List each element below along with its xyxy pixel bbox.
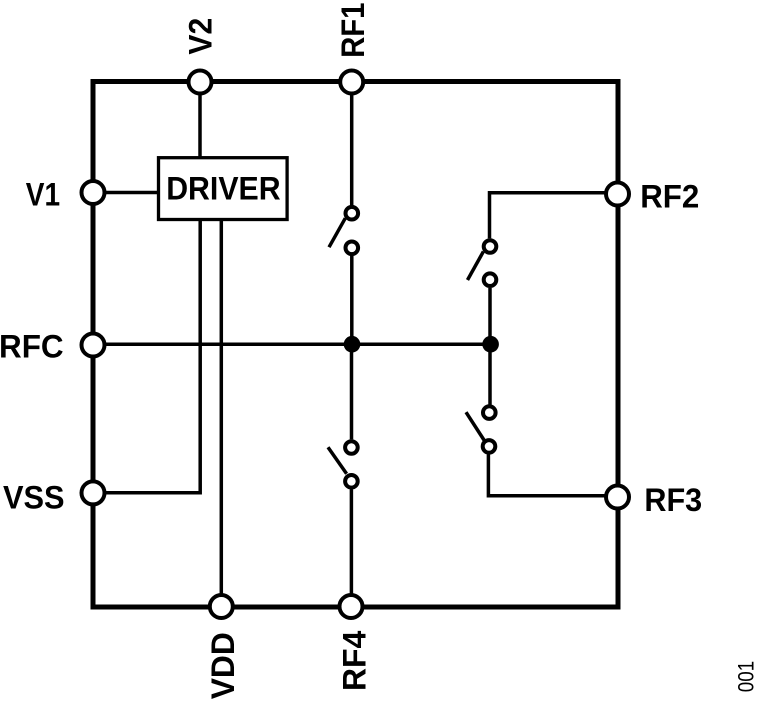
svg-text:RF4: RF4 (335, 630, 372, 691)
svg-text:V2: V2 (181, 18, 218, 55)
pin RF4 (340, 595, 363, 618)
wire V2 to DRIVER (198, 94, 202, 157)
wire VSS to DRIVER (105, 220, 200, 493)
wire RF2 branch (490, 193, 606, 239)
pin V2 (189, 71, 212, 94)
pin RF1 (340, 71, 363, 94)
wire RFC bus (105, 342, 491, 346)
svg-text:VDD: VDD (204, 632, 241, 699)
svg-text:DRIVER: DRIVER (166, 169, 281, 206)
node A junction dot (344, 336, 361, 353)
svg-text:RFC: RFC (0, 327, 64, 364)
svg-text:RF3: RF3 (644, 481, 702, 518)
svg-text:RF1: RF1 (334, 3, 371, 58)
switch SW2 (RF2 arm) (468, 240, 497, 286)
switch SW3 (RF3 arm) (466, 406, 496, 452)
pin RF2 (606, 183, 629, 206)
wire node B to SW3 (488, 344, 492, 404)
svg-text:001: 001 (734, 661, 759, 692)
wire V1 to DRIVER (105, 191, 158, 195)
wire VDD from DRIVER (220, 220, 224, 595)
chip outline box (93, 82, 618, 608)
wire SW1 to node A (350, 256, 354, 344)
pin V1 (82, 181, 105, 204)
pin RFC (82, 334, 105, 357)
wire SW2 to node B (488, 288, 492, 344)
switch SW4 (RF4 arm) (328, 441, 358, 487)
wire node A to SW4 (350, 344, 354, 439)
wire RF3 branch (488, 455, 605, 496)
wire SW4 to RF4 pin (350, 490, 354, 595)
svg-text:VSS: VSS (3, 479, 65, 516)
pin VDD (210, 595, 233, 618)
pin RF3 (606, 486, 629, 509)
switch SW1 (RF1 arm) (329, 207, 358, 254)
pin VSS (82, 481, 105, 504)
wire RF1 stub (350, 94, 354, 205)
svg-text:RF2: RF2 (640, 177, 699, 214)
node B junction dot (482, 336, 499, 353)
DRIVER box U1 (159, 158, 288, 220)
svg-text:V1: V1 (26, 175, 60, 212)
